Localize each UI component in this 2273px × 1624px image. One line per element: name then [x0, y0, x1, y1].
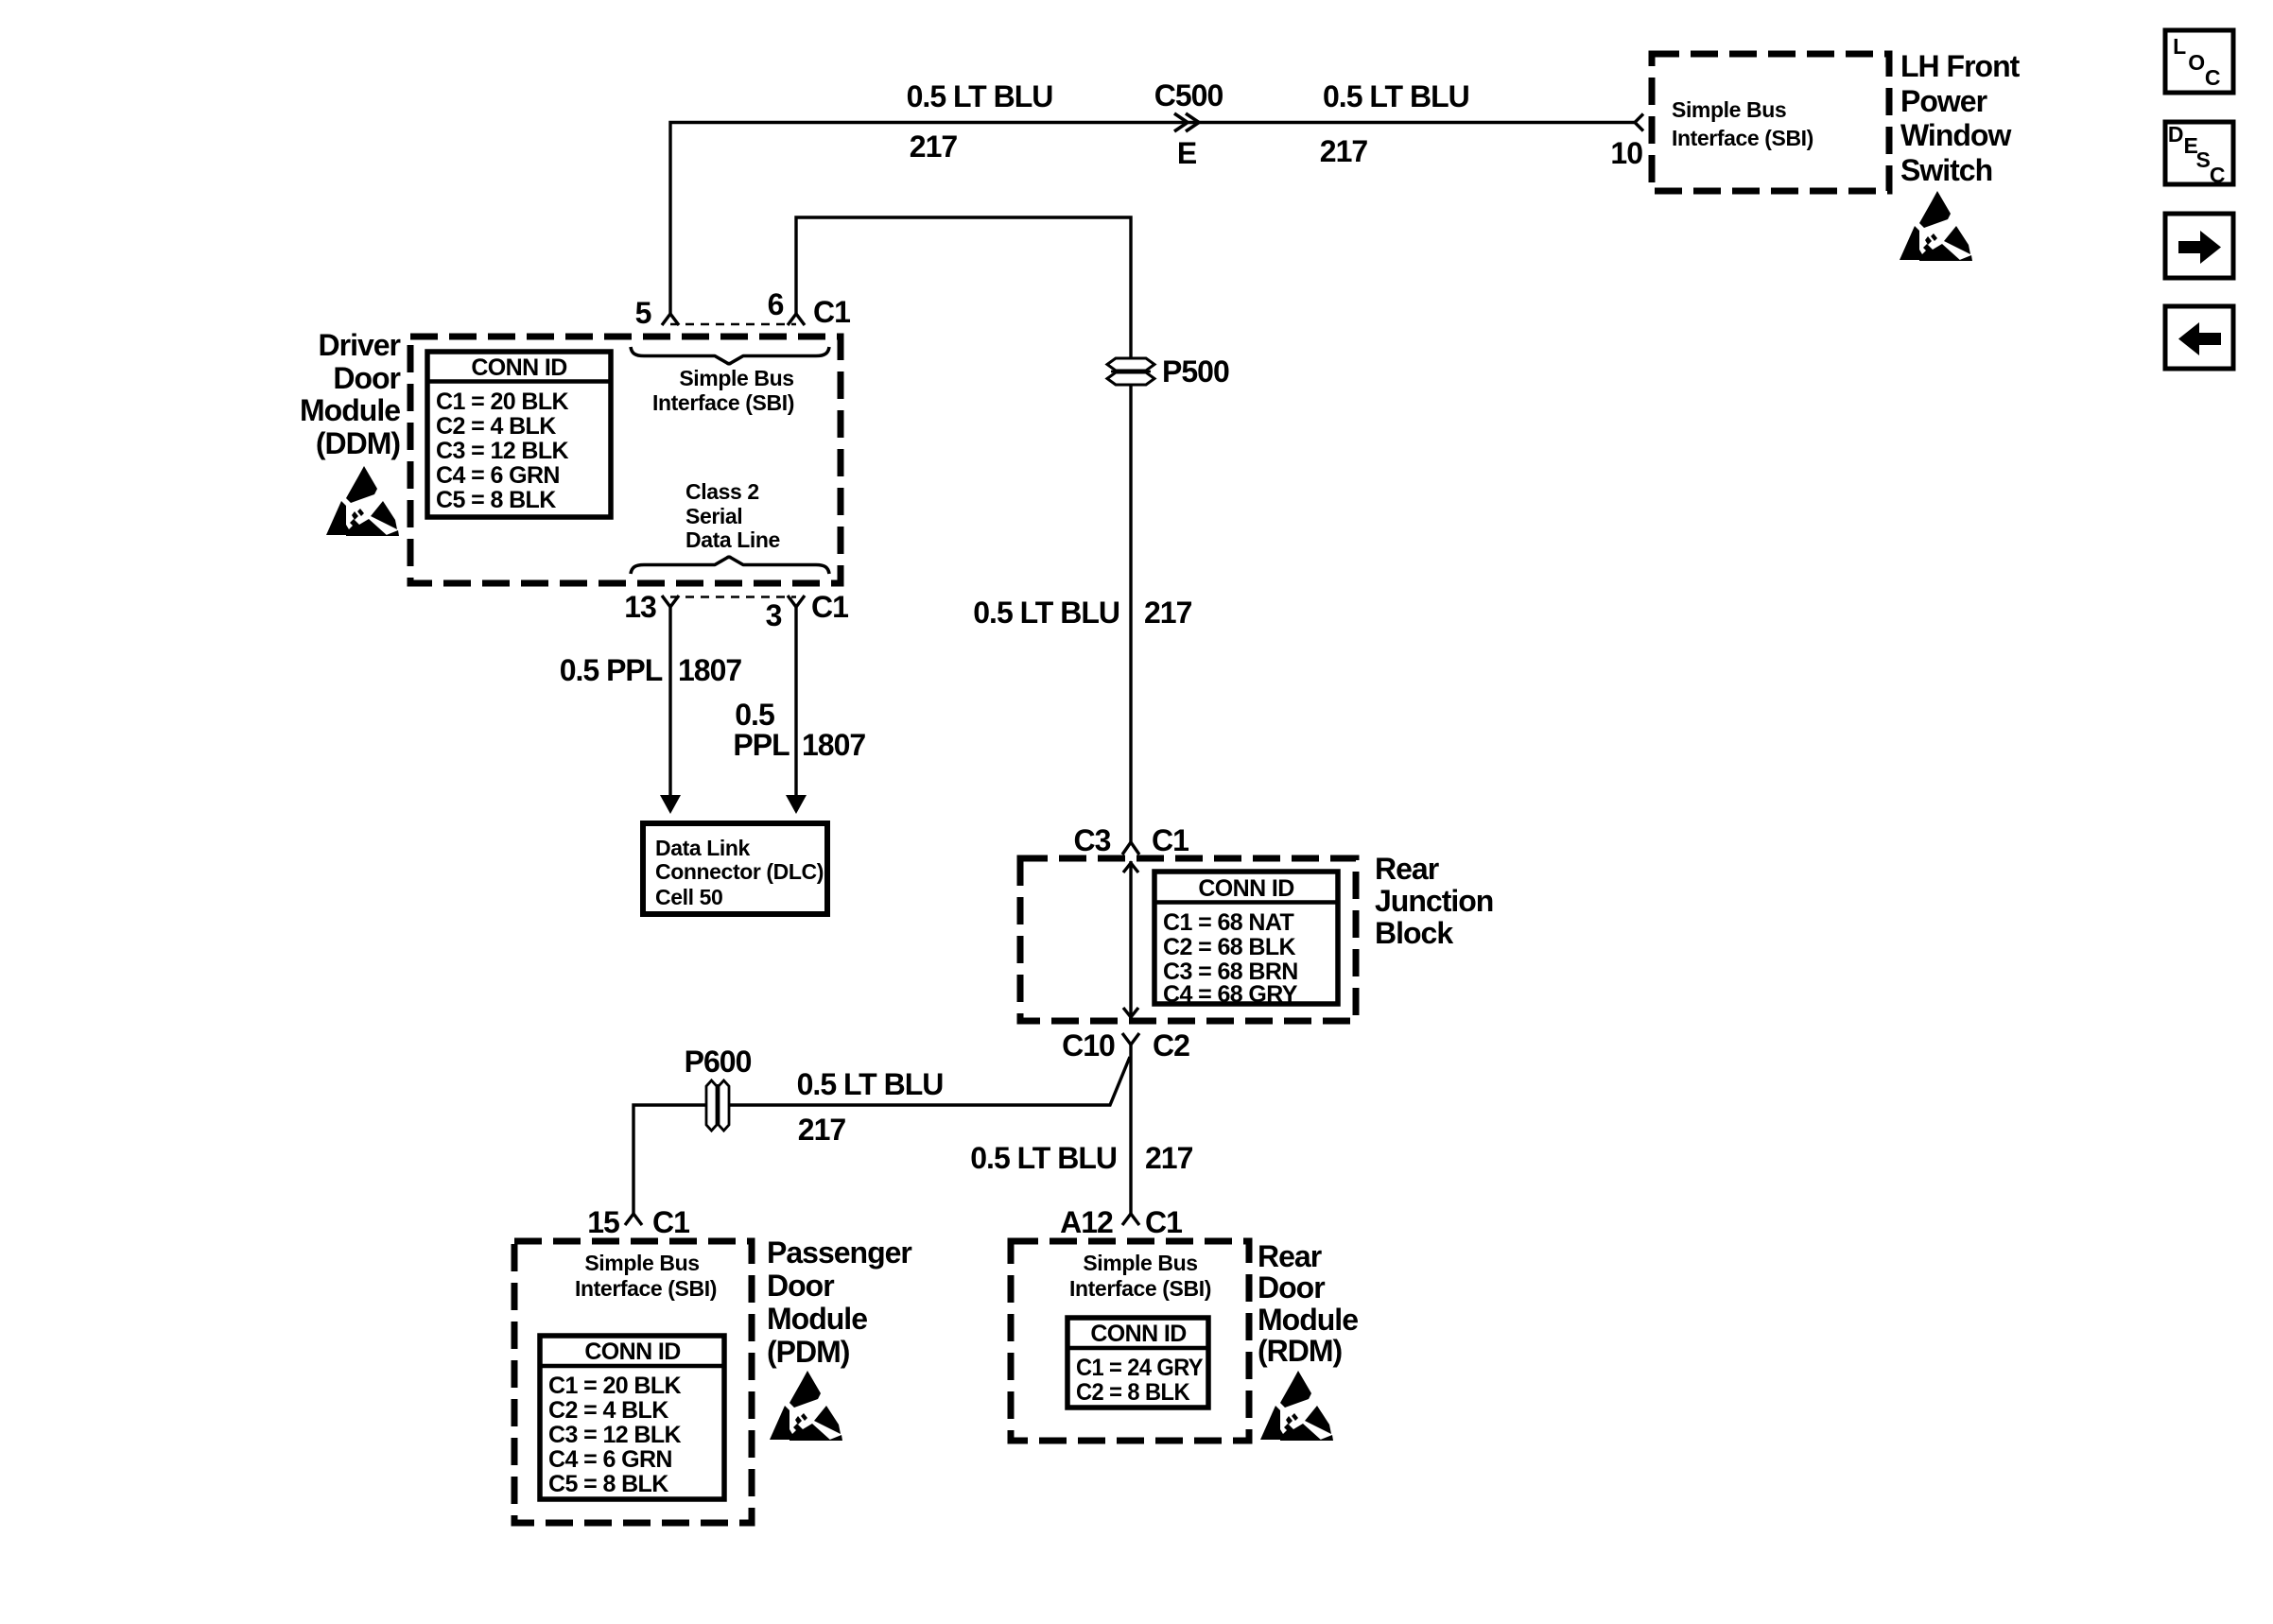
- back arrow icon box: [2165, 306, 2233, 369]
- svg-text:Cell 50: Cell 50: [655, 885, 722, 909]
- svg-text:Serial: Serial: [685, 504, 742, 528]
- svg-text:0.5 LT BLU: 0.5 LT BLU: [970, 1141, 1117, 1175]
- svg-text:Door: Door: [767, 1269, 834, 1303]
- svg-text:0.5 LT BLU: 0.5 LT BLU: [973, 596, 1119, 630]
- svg-text:C1: C1: [1145, 1205, 1182, 1239]
- svg-text:Data Link: Data Link: [655, 836, 751, 860]
- svg-text:3: 3: [766, 598, 782, 632]
- svg-text:S: S: [2196, 147, 2211, 172]
- pin 3 connector half (female): [788, 596, 805, 607]
- svg-text:6: 6: [768, 287, 784, 321]
- PDM CONN ID table: [540, 1336, 724, 1499]
- pin 13 connector half (female): [662, 596, 679, 607]
- ESD symbol at LH switch: [1900, 191, 1972, 261]
- svg-text:C1 = 68 NAT: C1 = 68 NAT: [1163, 909, 1293, 936]
- Data Link Connector (DLC) box: [643, 823, 827, 914]
- svg-text:E: E: [1177, 136, 1197, 170]
- arrowhead into DLC (right): [786, 795, 807, 814]
- svg-text:Interface (SBI): Interface (SBI): [1672, 126, 1813, 150]
- svg-text:0.5: 0.5: [735, 698, 774, 732]
- svg-text:(PDM): (PDM): [767, 1335, 850, 1369]
- inline connector C500 chevrons: [1174, 113, 1199, 131]
- pin 15 connector half (female) at PDM: [625, 1214, 642, 1225]
- svg-text:217: 217: [910, 130, 958, 164]
- svg-text:A12: A12: [1060, 1205, 1113, 1239]
- svg-text:Power: Power: [1900, 84, 1987, 118]
- brace under pins 5/6: [631, 347, 829, 364]
- up arrowhead (open): [1123, 863, 1138, 872]
- svg-text:CONN ID: CONN ID: [584, 1339, 680, 1365]
- brace above pins 13/3 (inverted): [631, 557, 829, 574]
- DDM CONN ID table: [427, 352, 611, 517]
- svg-text:13: 13: [624, 590, 656, 624]
- svg-text:D: D: [2168, 122, 2183, 147]
- wire: DDM pin 13 down to DLC: [668, 607, 671, 796]
- svg-text:LH Front: LH Front: [1900, 49, 2021, 83]
- svg-text:Passenger: Passenger: [767, 1235, 911, 1270]
- wire: DDM pin 6 up across and down to P500 / Rear Junction Block C3: [796, 217, 1131, 842]
- svg-text:Module: Module: [300, 393, 400, 427]
- svg-text:C1 = 24 GRY: C1 = 24 GRY: [1076, 1355, 1204, 1381]
- svg-text:Rear: Rear: [1375, 852, 1439, 886]
- svg-text:C3: C3: [1074, 823, 1111, 857]
- svg-text:C2: C2: [1153, 1028, 1189, 1063]
- thin dashed pin line between pins 13 and 3: [670, 596, 796, 598]
- svg-text:Interface (SBI): Interface (SBI): [575, 1276, 717, 1301]
- grommet P600 on horizontal wire: [706, 1080, 729, 1131]
- svg-text:C1: C1: [652, 1205, 689, 1239]
- svg-text:Driver: Driver: [319, 328, 401, 362]
- svg-text:C4 = 6 GRN: C4 = 6 GRN: [548, 1446, 672, 1473]
- svg-text:C1: C1: [811, 590, 848, 624]
- svg-text:(DDM): (DDM): [316, 426, 401, 460]
- svg-text:5: 5: [635, 296, 651, 330]
- svg-text:C4 = 68 GRY: C4 = 68 GRY: [1163, 981, 1298, 1008]
- svg-text:Block: Block: [1375, 916, 1453, 950]
- svg-text:Simple Bus: Simple Bus: [1672, 97, 1786, 122]
- pin 5 connector half (female) at DDM: [662, 314, 679, 325]
- Rear Junction Block dashed box: [1020, 858, 1356, 1021]
- svg-text:C2 = 4 BLK: C2 = 4 BLK: [436, 413, 556, 440]
- svg-text:Door: Door: [333, 361, 400, 395]
- svg-text:217: 217: [1144, 596, 1192, 630]
- svg-text:C5 = 8 BLK: C5 = 8 BLK: [548, 1471, 668, 1497]
- svg-text:Door: Door: [1258, 1270, 1325, 1304]
- svg-text:0.5 PPL: 0.5 PPL: [560, 653, 663, 687]
- svg-text:CONN ID: CONN ID: [1198, 875, 1293, 902]
- svg-text:1807: 1807: [678, 653, 741, 687]
- svg-text:Class 2: Class 2: [685, 479, 759, 504]
- ESD symbol at DDM: [326, 466, 399, 536]
- svg-text:Data Line: Data Line: [685, 527, 780, 552]
- down arrowhead (open): [1123, 1008, 1138, 1017]
- svg-text:1807: 1807: [802, 728, 865, 762]
- RDM CONN ID table: [1067, 1318, 1208, 1408]
- thin dashed pin line between pins 5 and 6: [670, 323, 796, 326]
- wire: RJB C10/C2 down to RDM A12: [1129, 1045, 1132, 1214]
- svg-text:Switch: Switch: [1900, 153, 1992, 187]
- svg-text:Interface (SBI): Interface (SBI): [1069, 1276, 1211, 1301]
- svg-text:C: C: [2210, 163, 2225, 187]
- svg-text:Rear: Rear: [1258, 1239, 1322, 1273]
- svg-text:C3 = 12 BLK: C3 = 12 BLK: [436, 438, 569, 464]
- svg-text:C1 = 20 BLK: C1 = 20 BLK: [436, 389, 569, 415]
- svg-text:Simple Bus: Simple Bus: [1083, 1251, 1197, 1275]
- svg-text:Simple Bus: Simple Bus: [584, 1251, 699, 1275]
- grommet P500 on vertical wire: [1107, 358, 1154, 385]
- Rear Door Module dashed box: [1011, 1241, 1249, 1441]
- wire: branch from RJB pin joint to P600 and PDM pin 15: [633, 1057, 1130, 1214]
- LOC icon box: [2165, 30, 2233, 93]
- wire: DDM pin 3 down to DLC: [794, 607, 797, 796]
- pin 10 connector half (female) at LH switch: [1635, 114, 1643, 131]
- wire: DDM pin 5 up and across to C500 and LH Front Power Window Switch pin 10: [670, 123, 1635, 315]
- svg-text:C10: C10: [1062, 1028, 1115, 1063]
- svg-text:C3 = 12 BLK: C3 = 12 BLK: [548, 1422, 682, 1448]
- svg-text:0.5 LT BLU: 0.5 LT BLU: [1323, 79, 1469, 113]
- svg-text:CONN ID: CONN ID: [471, 354, 566, 381]
- svg-text:217: 217: [798, 1113, 846, 1147]
- svg-text:C5 = 8 BLK: C5 = 8 BLK: [436, 487, 556, 513]
- forward arrow icon box: [2165, 214, 2233, 278]
- svg-text:P600: P600: [685, 1045, 752, 1079]
- svg-text:C4 = 6 GRN: C4 = 6 GRN: [436, 462, 560, 489]
- svg-text:217: 217: [1145, 1141, 1193, 1175]
- svg-text:C500: C500: [1154, 78, 1223, 112]
- ESD symbol at PDM: [770, 1371, 842, 1441]
- svg-text:0.5 LT BLU: 0.5 LT BLU: [907, 79, 1053, 113]
- svg-text:Simple Bus: Simple Bus: [679, 366, 793, 390]
- svg-text:C1: C1: [1152, 823, 1189, 857]
- ESD symbol at RDM: [1260, 1371, 1333, 1441]
- svg-text:C: C: [2205, 65, 2220, 90]
- pin C3/C1 connector half (female) at RJB top: [1122, 842, 1139, 855]
- svg-text:O: O: [2188, 50, 2205, 75]
- Driver Door Module dashed box: [410, 337, 841, 583]
- svg-text:L: L: [2173, 34, 2186, 59]
- svg-text:Junction: Junction: [1375, 884, 1493, 918]
- svg-text:C1 = 20 BLK: C1 = 20 BLK: [548, 1373, 682, 1399]
- svg-text:Module: Module: [1258, 1303, 1358, 1337]
- svg-text:10: 10: [1610, 136, 1642, 170]
- svg-text:C1: C1: [813, 295, 850, 329]
- arrowhead into DLC (left): [660, 795, 681, 814]
- internal wire with arrows through RJB: [1129, 861, 1132, 1019]
- LH Front Power Window Switch dashed box: [1652, 54, 1889, 191]
- DESC icon box: [2165, 122, 2233, 184]
- svg-text:C2 = 4 BLK: C2 = 4 BLK: [548, 1397, 668, 1424]
- svg-text:C2 = 68 BLK: C2 = 68 BLK: [1163, 934, 1296, 960]
- svg-text:PPL: PPL: [733, 728, 789, 762]
- svg-text:15: 15: [587, 1205, 619, 1239]
- svg-text:Interface (SBI): Interface (SBI): [652, 390, 794, 415]
- svg-text:CONN ID: CONN ID: [1090, 1321, 1186, 1347]
- svg-text:Module: Module: [767, 1302, 867, 1336]
- pin C10/C2 connector half (female) at RJB bottom: [1122, 1033, 1139, 1045]
- Passenger Door Module dashed box: [514, 1241, 752, 1523]
- svg-text:C2 = 8 BLK: C2 = 8 BLK: [1076, 1379, 1190, 1406]
- svg-text:Connector (DLC): Connector (DLC): [655, 859, 824, 884]
- svg-text:P500: P500: [1162, 354, 1229, 389]
- pin 6 connector half (female): [788, 314, 805, 325]
- svg-text:217: 217: [1320, 134, 1368, 168]
- svg-text:Window: Window: [1900, 118, 2011, 152]
- RJB CONN ID table: [1154, 872, 1338, 1004]
- pin A12 connector half (female) at RDM: [1122, 1214, 1139, 1225]
- svg-text:(RDM): (RDM): [1258, 1334, 1343, 1368]
- svg-text:0.5 LT BLU: 0.5 LT BLU: [797, 1067, 944, 1101]
